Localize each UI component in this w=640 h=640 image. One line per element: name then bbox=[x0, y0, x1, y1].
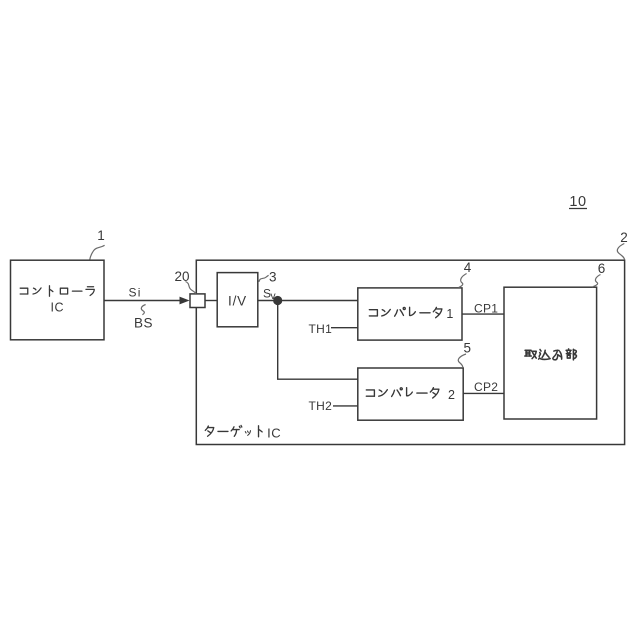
node junction dot bbox=[273, 296, 282, 305]
svg-text:CP2: CP2 bbox=[474, 380, 498, 394]
wire CP2 comparator2 to capture bbox=[463, 392, 504, 394]
wire terminal to I/V converter bbox=[205, 300, 217, 302]
wire Si from controller to input terminal, with arrowhead bbox=[104, 297, 190, 305]
reference numeral 1 bbox=[90, 228, 105, 260]
wire TH1 input bbox=[331, 327, 358, 329]
svg-text:5: 5 bbox=[464, 341, 472, 356]
svg-text:I/V: I/V bbox=[228, 293, 247, 308]
svg-text:4: 4 bbox=[464, 260, 472, 275]
svg-text:CP1: CP1 bbox=[474, 301, 498, 315]
svg-text:6: 6 bbox=[598, 261, 606, 276]
wire Sv from I/V to comparator 1 bbox=[258, 300, 358, 302]
wire CP1 comparator1 to capture bbox=[462, 313, 504, 315]
svg-text:IC: IC bbox=[267, 425, 281, 440]
svg-text:1: 1 bbox=[446, 307, 453, 321]
reference numeral 2 bbox=[617, 230, 627, 260]
svg-text:20: 20 bbox=[174, 269, 189, 284]
reference numeral 5 bbox=[458, 341, 471, 368]
svg-text:1: 1 bbox=[97, 228, 105, 243]
wire TH2 input bbox=[333, 405, 358, 407]
svg-text:TH2: TH2 bbox=[309, 399, 333, 413]
block capture unit (box 6) bbox=[504, 287, 597, 419]
reference numeral 3 bbox=[259, 270, 277, 285]
svg-text:2: 2 bbox=[620, 230, 628, 245]
wire branch to comparator 2 bbox=[278, 301, 358, 380]
label signal BS with leader squiggle bbox=[134, 305, 153, 331]
input terminal square (pad 20) bbox=[190, 294, 205, 308]
reference numeral 4 bbox=[459, 260, 472, 288]
reference numeral 20 bbox=[174, 269, 196, 294]
svg-text:IC: IC bbox=[51, 301, 65, 315]
reference numeral 6 bbox=[592, 261, 605, 287]
label figure number 10 bbox=[569, 194, 587, 210]
label target IC text bbox=[205, 425, 281, 440]
block controller IC (box 1) bbox=[11, 260, 105, 340]
svg-text:TH1: TH1 bbox=[309, 322, 333, 336]
svg-text:10: 10 bbox=[569, 194, 586, 210]
svg-text:BS: BS bbox=[134, 316, 153, 331]
svg-text:2: 2 bbox=[448, 388, 455, 402]
block I/V converter (box 3) bbox=[217, 273, 258, 327]
label signal Sv bbox=[263, 287, 276, 302]
block comparator 2 (box 5) bbox=[358, 368, 463, 420]
block target IC outline (box 2) bbox=[196, 260, 624, 444]
svg-text:3: 3 bbox=[269, 270, 277, 285]
svg-text:Si: Si bbox=[129, 286, 142, 300]
block comparator 1 (box 4) bbox=[358, 288, 462, 340]
